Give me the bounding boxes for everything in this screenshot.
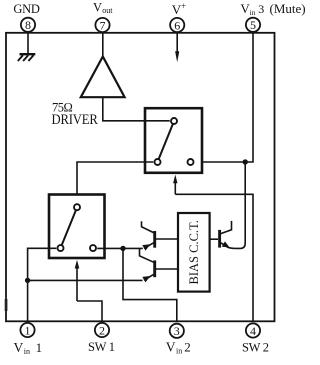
svg-text:V: V [166,340,176,355]
node pin5/mute junction [243,159,248,164]
pin 2 [95,323,109,338]
wire pin8 to ground [27,33,29,54]
pin 3 [170,324,184,339]
wire S2 left contact to S1 common [77,162,153,203]
svg-text:GND: GND [13,2,39,16]
svg-text:V: V [93,1,102,15]
S1 left contact [58,245,64,251]
svg-text:6: 6 [174,18,180,32]
package outline box [6,33,275,322]
S2 common contact [171,118,177,124]
pin 6 [170,18,184,33]
svg-text:SW 2: SW 2 [242,341,269,355]
svg-text:3: 3 [174,324,180,338]
svg-text:1: 1 [36,340,43,355]
svg-text:SW 1: SW 1 [88,340,115,354]
wire driver input to S2 common [103,97,170,121]
pin 8 [21,18,35,33]
label Vin1 [14,340,43,356]
pin 7 [95,18,109,33]
label 75ohm DRIVER [52,100,99,127]
switch S1 lower box [49,195,105,259]
wire pin7 to driver input [102,33,104,56]
label Vin3 (Mute) [240,1,305,17]
svg-text:4: 4 [250,324,256,338]
svg-text:BIAS C.C.T.: BIAS C.C.T. [187,220,201,284]
svg-text:2: 2 [99,323,105,337]
wire node down to pin3 [123,248,177,321]
wire S1 left contact to pin1 rail [28,248,57,321]
BIAS C.C.T. box U2 [178,213,210,292]
svg-text:in: in [176,347,182,356]
label Vin2 [166,340,191,356]
svg-text:(Mute): (Mute) [270,1,306,16]
S1 control arrow [75,260,80,301]
wire S1 right contact to node [97,247,143,249]
svg-text:out: out [102,6,113,15]
node Vin1/Q2 emitter junction [25,278,30,283]
op-amp U1 75 ohm driver triangle [81,57,125,98]
svg-text:8: 8 [25,18,31,32]
ground [18,54,36,61]
svg-text:7: 7 [100,18,106,32]
transistor Q2 [140,248,179,282]
pin 5 [246,18,260,33]
pin 4 [246,323,260,338]
node Vin2 junction [120,246,125,251]
S2 control arrow [173,175,177,195]
wire S1 control to pin2 [77,301,102,321]
S2 lever [159,124,173,159]
V+ supply arrow [175,33,179,63]
svg-text:V: V [14,340,24,355]
svg-text:3: 3 [258,2,264,16]
scan darkening on left border [5,299,8,311]
pin 1 [20,323,34,338]
svg-text:1: 1 [25,323,31,337]
wire mute branch to Q3 emitter [244,162,246,244]
S2 left contact [155,159,161,165]
switch S2 upper box [145,108,202,173]
svg-text:+: + [181,1,186,11]
S1 lever [62,210,76,245]
S1 right contact [90,245,96,251]
svg-text:in: in [24,347,30,356]
S1 common contact [74,204,80,210]
svg-text:5: 5 [250,18,256,32]
transistor Q3 [210,221,245,249]
wire pin5 down right side [195,33,253,162]
svg-text:DRIVER: DRIVER [52,111,99,127]
svg-text:2: 2 [184,340,191,355]
wire S2 control to pin4 [175,194,253,321]
svg-text:in: in [250,8,256,17]
transistor Q1 [142,221,179,250]
label V+ [172,1,186,17]
wire Q2 emitter line to pin1 rail [28,279,143,281]
label Vout [93,1,113,15]
S2 right contact [188,159,194,165]
